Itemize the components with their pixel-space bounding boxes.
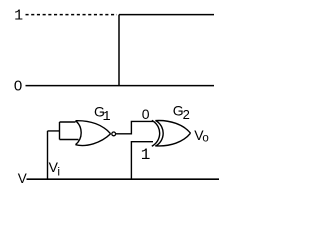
- svg-text:i: i: [57, 165, 60, 179]
- bottom rail wire V: [27, 178, 220, 180]
- gate G2 XOR body: [155, 120, 190, 146]
- G1 output bubble: [112, 132, 116, 136]
- svg-text:0: 0: [14, 78, 22, 95]
- wire rail to G2 bottom input: [131, 142, 153, 180]
- svg-text:o: o: [202, 133, 208, 145]
- svg-text:2: 2: [183, 107, 190, 122]
- waveform level-0 baseline: [26, 85, 215, 87]
- svg-text:0: 0: [142, 106, 150, 122]
- gate G2 XOR extra input arc: [152, 120, 160, 146]
- svg-text:V: V: [18, 171, 27, 186]
- svg-text:1: 1: [102, 110, 110, 125]
- wire Vi vertical: [47, 131, 49, 179]
- svg-text:1: 1: [141, 146, 151, 164]
- waveform level-1 dashed reference line: [26, 14, 118, 16]
- gate G1 NOR body: [76, 121, 111, 146]
- waveform step edge (vertical transition): [118, 15, 120, 86]
- svg-text:1: 1: [14, 8, 23, 25]
- G1 tied input wires node: [48, 122, 79, 140]
- waveform high segment: [119, 14, 214, 16]
- wire G1 output to G2 top input: [116, 121, 154, 133]
